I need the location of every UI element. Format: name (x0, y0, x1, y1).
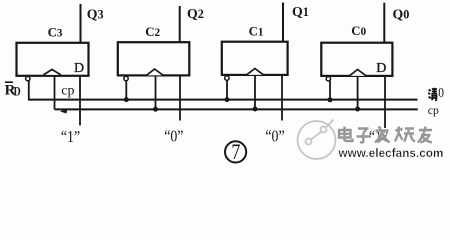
svg-text:Q2: Q2 (187, 6, 204, 21)
wire C1 reset to RD bus (226, 80, 228, 100)
wire C2 D input stub (179, 75, 181, 120)
svg-text:Q3: Q3 (87, 6, 104, 21)
label "1" data of C0 (369, 128, 388, 146)
junction dot C2 clock (153, 107, 158, 112)
label 0 after qing (438, 85, 444, 100)
wire C3 reset to RD bus (28, 81, 30, 100)
RD clear bus wire (28, 99, 418, 101)
wire Q3 output (80, 4, 82, 43)
wire Q0 output (383, 3, 385, 43)
wire C2 clock to cp bus (155, 75, 157, 109)
wire C3 clock to cp bus (54, 76, 56, 110)
junction dot C2 reset (124, 97, 129, 102)
wire C1 D input stub (281, 75, 283, 121)
overline of RD label (5, 81, 13, 83)
clock edge triangle of C3 (44, 69, 61, 75)
cp clock bus wire (55, 108, 418, 110)
wire C1 clock to cp bus (254, 75, 256, 110)
wire C3 D input stub (79, 76, 81, 126)
svg-text:cp: cp (428, 103, 439, 117)
inverter bubble (RD input) of C1 (225, 76, 229, 80)
svg-text:C3: C3 (48, 26, 63, 40)
wire C0 D input stub (384, 76, 386, 128)
inverter bubble (RD input) of C0 (326, 77, 330, 81)
svg-text:D: D (14, 86, 21, 99)
flip-flop C3 box (17, 43, 89, 76)
svg-text:7: 7 (231, 140, 240, 164)
svg-text:0: 0 (438, 85, 444, 100)
wire C0 clock to cp bus (357, 76, 359, 110)
junction dot C0 reset (328, 97, 333, 102)
clock edge triangle of C2 (146, 69, 163, 75)
svg-text:C0: C0 (351, 24, 366, 38)
svg-text:C1: C1 (249, 24, 264, 38)
label qing-0 (clear 0) at right of RD bus (428, 88, 437, 101)
svg-text:Q1: Q1 (292, 4, 309, 19)
junction dot C1 reset (225, 97, 230, 102)
flip-flop C0 box (321, 43, 392, 76)
label "0" data of C2 (164, 127, 183, 145)
label "0" data of C1 (265, 127, 284, 145)
wire C0 reset to RD bus (329, 81, 331, 100)
clock edge triangle of C0 (349, 70, 366, 76)
inverter bubble (RD input) of C2 (124, 76, 128, 80)
label "1" data of C3 (61, 128, 80, 146)
label RD (R-bar D) (5, 82, 21, 99)
svg-text:“0”: “0” (164, 127, 183, 145)
junction dot C1 clock (253, 107, 258, 112)
watermark logo circle (298, 120, 336, 160)
svg-text:C2: C2 (145, 25, 160, 39)
figure number circled 7 (225, 141, 246, 162)
junction dot C0 clock (355, 107, 360, 112)
svg-text:D: D (376, 61, 386, 76)
watermark text dian-zi-fa-shao-you (339, 127, 432, 143)
flip-flop C1 box (222, 42, 288, 75)
inverter bubble (RD input) of C3 (26, 76, 30, 80)
svg-text:www.elecfans.com: www.elecfans.com (338, 147, 444, 160)
wire C2 reset to RD bus (125, 81, 127, 100)
svg-text:“1”: “1” (61, 128, 80, 146)
wire Q1 output (282, 3, 284, 42)
svg-text:“0”: “0” (265, 127, 284, 145)
clock edge triangle of C1 (247, 69, 264, 75)
flip-flop C2 box (118, 42, 190, 75)
arrow mark on cp bus (60, 109, 68, 114)
wire Q2 output (179, 6, 181, 42)
svg-text:D: D (74, 61, 84, 76)
svg-text:cp: cp (61, 83, 74, 98)
svg-text:Q0: Q0 (393, 6, 410, 21)
